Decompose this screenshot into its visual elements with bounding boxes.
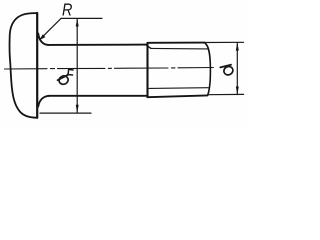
svg-text:R: R: [62, 0, 73, 20]
shank top edge: [48, 44, 147, 46]
chamfer diagonal into thread minor line, top: [146, 45, 151, 49]
R leader shelf / top extension line of head dimension: [61, 17, 102, 19]
shank bottom edge: [49, 95, 147, 97]
arrow up (head dimension, top): [76, 19, 79, 27]
bottom extension line of head dimension: [40, 112, 91, 114]
under-head fillet, top side (radius R): [38, 34, 48, 45]
threaded portion top edge (major diameter): [148, 42, 205, 44]
top extension line of shank dimension d: [205, 41, 244, 43]
head diameter dimension line (vertical): [76, 19, 78, 113]
thread minor diameter thin line, bottom: [149, 87, 208, 90]
arrow down (shank dimension, bottom): [236, 87, 239, 95]
rivet head outline (formed head, freehand profile): [9, 13, 36, 118]
rivet head right face (vertical line): [36, 13, 38, 118]
centerline (dash-dot axis): [5, 68, 214, 70]
R leader diagonal: [42, 18, 62, 37]
label d_n (rotated, head diameter): hand-drawn italic d: [58, 69, 73, 85]
threaded portion bottom edge (major diameter): [148, 95, 208, 97]
arrow down (head dimension, bottom): [76, 105, 79, 113]
label d (rotated, shank diameter): hand-drawn italic d: [220, 65, 234, 77]
under-head fillet, bottom side: [38, 96, 49, 107]
domed right end of shank: [205, 43, 211, 95]
subscript п of d_n: [68, 69, 73, 75]
thread minor diameter thin line, top: [151, 47, 209, 50]
shank diameter dimension line (vertical, right): [236, 43, 238, 95]
thread boundary vertical line: [146, 43, 148, 97]
arrow up (shank dimension, top): [236, 43, 239, 51]
R leader arrowhead: [39, 34, 45, 40]
bottom extension line of shank dimension d: [208, 93, 244, 95]
